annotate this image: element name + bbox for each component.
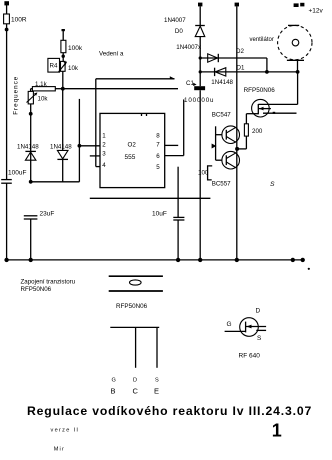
svg-text:8: 8	[156, 132, 160, 139]
capacitor 23uF	[24, 211, 55, 260]
op-amp U1 555 timer box	[100, 113, 165, 187]
capacitor 10uF	[152, 167, 184, 260]
resistor 100R	[4, 14, 27, 24]
svg-text:200: 200	[252, 128, 263, 135]
node bus dot	[29, 258, 33, 262]
wire pin2 vertical	[78, 99, 80, 182]
diode D0 1N4007	[164, 17, 205, 86]
svg-text:1N4007: 1N4007	[164, 17, 186, 24]
wire	[199, 6, 201, 25]
svg-text:1: 1	[102, 132, 106, 139]
svg-text:R4: R4	[50, 63, 58, 70]
node dot	[265, 70, 269, 74]
svg-text:1N4148: 1N4148	[17, 144, 39, 151]
diode D3 1N4148	[17, 144, 39, 161]
wire pin3 stub	[90, 155, 100, 157]
node plus terminal left	[4, 1, 9, 5]
wire pin7 node line	[63, 88, 178, 90]
resistor 1,1k	[31, 81, 63, 91]
node A junction dot	[5, 28, 9, 32]
svg-text:RF 640: RF 640	[239, 353, 261, 360]
svg-text:E: E	[154, 387, 159, 396]
wire reset line with arrow	[96, 76, 175, 166]
svg-text:5: 5	[156, 164, 160, 171]
svg-text:D1: D1	[237, 65, 245, 72]
svg-text:1N4148: 1N4148	[211, 79, 233, 86]
transistor package TO-220 RFP50N06	[109, 276, 163, 395]
wire pin6 riser	[183, 99, 185, 155]
wire pin7 stub	[165, 144, 179, 146]
svg-text:D: D	[256, 308, 261, 315]
svg-text:6: 6	[156, 153, 160, 160]
svg-text:D0: D0	[175, 28, 183, 35]
trimmer R4 10k	[48, 58, 79, 88]
svg-text:3: 3	[102, 151, 106, 158]
node bus end dots	[291, 258, 310, 270]
svg-text:ventilátor: ventilátor	[250, 37, 274, 43]
wire C1 column down	[199, 90, 201, 260]
svg-text:100k: 100k	[68, 45, 83, 52]
wire left rail lower	[6, 183, 8, 260]
svg-text:G: G	[227, 321, 232, 328]
node ground bus corner dot	[4, 258, 8, 262]
diode D2 1N4007	[176, 44, 267, 72]
svg-text:B: B	[111, 387, 116, 396]
wire left rail upper	[6, 24, 8, 179]
wire right rail	[236, 6, 238, 260]
wire pin2 stub	[79, 145, 100, 147]
node bus dot	[235, 258, 239, 262]
node emitter junction dot	[235, 147, 239, 151]
capacitor C1 100000u	[184, 80, 214, 104]
node bus dot	[198, 258, 202, 262]
diode D1 1N4148	[200, 65, 297, 87]
node junction dot	[62, 55, 65, 58]
svg-text:7: 7	[156, 141, 160, 148]
svg-text:23uF: 23uF	[40, 211, 55, 218]
resistor 100k	[61, 29, 83, 61]
svg-text:100uF: 100uF	[8, 170, 26, 177]
svg-text:Frequence: Frequence	[13, 76, 20, 115]
svg-text:10k: 10k	[38, 96, 49, 103]
svg-text:RFP50N06: RFP50N06	[244, 87, 276, 94]
wire base link	[212, 126, 222, 160]
svg-text:BC547: BC547	[212, 112, 231, 119]
wire bracket stub	[208, 166, 213, 180]
node plus terminal right	[235, 3, 239, 7]
svg-text:1N4007x: 1N4007x	[176, 44, 202, 51]
svg-text:D: D	[133, 378, 137, 384]
wire pin6 stub	[165, 155, 184, 157]
svg-text:4: 4	[102, 162, 106, 169]
node trigger wire dot	[29, 180, 33, 184]
transistor Q3 BC557	[222, 151, 240, 169]
node dot	[296, 70, 300, 74]
transistor Q4 RF640 mosfet symbol	[225, 308, 267, 360]
node dot	[199, 70, 202, 73]
svg-text:10k: 10k	[68, 65, 79, 72]
svg-text:+12v: +12v	[309, 8, 324, 15]
resistor 200	[244, 114, 262, 149]
wire output line	[90, 197, 211, 199]
wire trigger node	[31, 181, 80, 183]
svg-text:S: S	[257, 335, 262, 342]
svg-text:1N4148: 1N4148	[50, 144, 72, 151]
node pin2 dot	[78, 144, 82, 148]
transistor Q2 BC547	[212, 112, 240, 144]
svg-text:2: 2	[102, 141, 106, 148]
trimmer Frequence 10k	[27, 91, 49, 181]
svg-text:RFP50N06: RFP50N06	[116, 303, 148, 310]
svg-text:BC557: BC557	[212, 180, 231, 187]
svg-text:Vedení a: Vedení a	[99, 51, 124, 58]
svg-text:10uF: 10uF	[152, 211, 167, 218]
svg-text:Regulace vodíkového reaktoru I: Regulace vodíkového reaktoru Iv III.24.3…	[27, 404, 312, 418]
svg-text:C: C	[133, 387, 139, 396]
capacitor 100uF	[1, 170, 26, 184]
svg-text:1: 1	[272, 421, 282, 441]
svg-text:O2: O2	[128, 142, 137, 149]
svg-text:S: S	[155, 378, 159, 384]
label +12v	[294, 3, 324, 15]
svg-text:Zapojení tranzistoru: Zapojení tranzistoru	[21, 279, 76, 286]
svg-text:100R: 100R	[11, 17, 27, 24]
svg-text:G: G	[112, 378, 116, 384]
node bus dot	[176, 258, 180, 262]
motor fan ventilator	[250, 25, 312, 72]
svg-text:C1: C1	[186, 80, 194, 87]
label Zapojeni tranzistoru RFP50N06	[21, 279, 76, 293]
wire emitter to gate resistor	[237, 148, 246, 150]
wire ground bus	[7, 259, 304, 261]
node dot	[199, 56, 202, 59]
svg-text:555: 555	[125, 154, 136, 161]
svg-text:100000u: 100000u	[184, 97, 214, 104]
node dot	[29, 112, 33, 116]
svg-text:S: S	[270, 181, 275, 188]
svg-text:RFP50N06: RFP50N06	[21, 286, 52, 293]
svg-text:verze II: verze II	[51, 427, 80, 433]
wire	[6, 5, 8, 14]
svg-text:Mir: Mir	[54, 446, 65, 452]
transistor Q1 RFP50N06 mosfet	[244, 72, 298, 117]
node timing junction dot	[61, 87, 65, 91]
diode D4 1N4148	[50, 89, 72, 182]
node plus terminal mid	[198, 3, 202, 7]
